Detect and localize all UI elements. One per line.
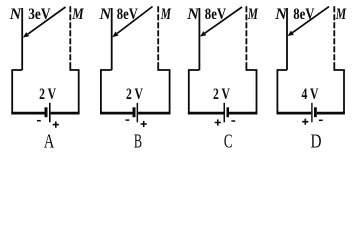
battery A: short thick negative plate xyxy=(45,107,48,117)
wire: bottom right segment (C) xyxy=(229,112,257,115)
svg-text:3eV: 3eV xyxy=(28,6,51,23)
electrode plate M dashed line (D) xyxy=(333,6,335,62)
svg-text:C: C xyxy=(224,131,233,152)
battery minus sign (C) xyxy=(231,120,235,122)
battery C: long thin positive plate xyxy=(224,103,226,123)
svg-text:N: N xyxy=(9,6,23,23)
battery plus sign (B) xyxy=(141,121,147,127)
electrode plate M dashed line (B) xyxy=(157,6,159,62)
wire: bottom right segment (A) xyxy=(51,112,80,115)
electrode plate N (A) xyxy=(21,8,23,70)
electrode plate N (B) xyxy=(111,8,113,70)
wire: left step from plate N to outer wire (B) xyxy=(101,70,112,113)
battery minus sign (A) xyxy=(37,120,41,122)
circuit C: phototube with battery xyxy=(188,6,258,113)
wire: bottom left segment (B) xyxy=(100,112,133,115)
light ray arrow (8eV) hitting plate N (B) xyxy=(117,7,153,34)
electrode plate N (C) xyxy=(198,8,200,70)
svg-text:M: M xyxy=(247,6,258,23)
battery plus sign (A) xyxy=(53,122,59,128)
battery B: short thick negative plate xyxy=(133,107,136,117)
circuit B: phototube with battery xyxy=(100,6,171,113)
wire: bottom left segment (D) xyxy=(277,112,312,115)
wire: bottom right segment (D) xyxy=(317,112,345,115)
battery minus sign (D) xyxy=(319,119,323,121)
light ray arrow (8eV) hitting plate N (D) xyxy=(292,7,329,33)
svg-text:8eV: 8eV xyxy=(205,6,227,23)
wire: M-side solid stub and right step to outer wire (D) xyxy=(334,62,344,113)
circuit A: phototube with battery xyxy=(11,6,79,113)
electrode plate M dashed line (C) xyxy=(245,6,247,62)
svg-text:N: N xyxy=(274,6,288,23)
svg-text:2 V: 2 V xyxy=(39,86,56,103)
battery A: long thin positive plate xyxy=(49,103,51,123)
battery C: short thick negative plate xyxy=(227,107,230,117)
circuit D: phototube with battery xyxy=(277,6,345,113)
battery B: long thin positive plate xyxy=(137,103,139,123)
electrode plate M dashed line (A) xyxy=(69,6,71,62)
svg-text:8eV: 8eV xyxy=(293,6,315,23)
battery minus sign (B) xyxy=(126,119,130,121)
svg-text:2 V: 2 V xyxy=(126,86,143,103)
wire: M-side solid stub and right step to outer wire (B) xyxy=(158,62,169,113)
svg-text:M: M xyxy=(160,6,171,23)
battery D: short thick negative plate xyxy=(314,107,317,117)
battery D: long thin positive plate xyxy=(311,103,312,123)
svg-text:D: D xyxy=(311,131,322,152)
svg-text:M: M xyxy=(335,6,347,23)
wire: bottom left segment (A) xyxy=(11,112,44,115)
battery plus sign (C) xyxy=(215,119,221,125)
svg-text:2 V: 2 V xyxy=(213,86,230,103)
svg-text:N: N xyxy=(98,6,112,23)
svg-text:N: N xyxy=(186,6,200,23)
wire: left step from plate N to outer wire (C) xyxy=(189,70,200,113)
wire: M-side solid stub and right step to outer wire (C) xyxy=(246,62,256,113)
wire: bottom right segment (B) xyxy=(138,112,170,115)
light ray arrow (3eV) hitting plate N (A) xyxy=(28,7,66,34)
wire: M-side solid stub and right step to outer wire (A) xyxy=(70,62,78,113)
svg-text:B: B xyxy=(134,131,142,152)
svg-text:M: M xyxy=(71,6,84,23)
battery plus sign (D) xyxy=(302,119,308,125)
svg-text:4 V: 4 V xyxy=(302,86,319,103)
wire: left step from plate N to outer wire (A) xyxy=(12,70,22,113)
svg-text:8eV: 8eV xyxy=(117,6,138,23)
wire: bottom left segment (C) xyxy=(188,112,224,115)
svg-text:A: A xyxy=(44,131,55,152)
wire: left step from plate N to outer wire (D) xyxy=(277,70,287,113)
electrode plate N (D) xyxy=(286,8,288,70)
light ray arrow (8eV) hitting plate N (C) xyxy=(205,7,242,33)
